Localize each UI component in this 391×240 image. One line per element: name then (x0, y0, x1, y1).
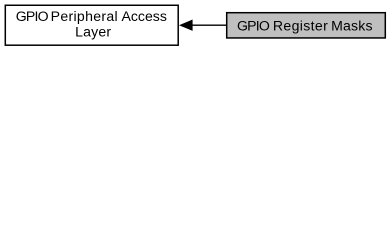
svg-text:Access: Access (121, 8, 166, 24)
svg-text:Peripheral: Peripheral (51, 8, 118, 24)
svg-text:GPIO: GPIO (16, 8, 49, 24)
svg-text:Layer: Layer (75, 23, 111, 39)
svg-text:Register: Register (273, 18, 328, 34)
svg-text:GPIO: GPIO (237, 18, 270, 34)
svg-text:Masks: Masks (331, 18, 373, 34)
